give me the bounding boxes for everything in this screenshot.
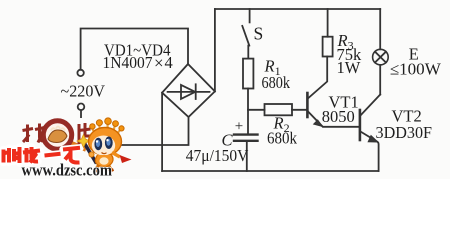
wire R3 top to rail bbox=[327, 9, 329, 37]
bridge rectifier VD1~VD4 diamond bbox=[162, 64, 215, 117]
capacitor C plates bbox=[234, 135, 258, 141]
watermark char zhao bbox=[23, 124, 45, 143]
wire top-left from terminal to bridge top bbox=[81, 29, 188, 70]
wire R1 bottom to capacitor bbox=[247, 89, 249, 135]
svg-text:≤100W: ≤100W bbox=[390, 60, 441, 79]
mascot crown bbox=[90, 118, 124, 133]
mascot bbox=[77, 118, 132, 172]
watermark magnifier ring logo bbox=[43, 121, 86, 150]
wire bridge right vertex to top rail bbox=[214, 9, 216, 91]
wire R2 to VT1 base bbox=[292, 109, 306, 111]
resistor R2 bbox=[265, 104, 293, 115]
mascot legs bbox=[96, 166, 112, 170]
VT2 emitter wire to bottom rail bbox=[360, 132, 378, 172]
terminal upper ~220V bbox=[77, 70, 83, 76]
watermark text weiku yixia red bbox=[4, 147, 81, 163]
mascot body bbox=[95, 155, 113, 167]
mascot star and sword bbox=[84, 143, 97, 164]
watermark white halo bbox=[0, 118, 117, 179]
svg-text:680k: 680k bbox=[267, 128, 298, 147]
svg-text:1N4007: 1N4007 bbox=[103, 53, 153, 72]
svg-text:S: S bbox=[254, 24, 264, 44]
svg-text:8050: 8050 bbox=[322, 107, 355, 126]
watermark char pian bbox=[79, 123, 91, 145]
svg-text:+: + bbox=[235, 119, 243, 135]
switch S bbox=[242, 9, 249, 59]
wire bottom rail bbox=[162, 170, 379, 172]
svg-text:www.dzsc.com: www.dzsc.com bbox=[22, 161, 113, 180]
svg-text:3DD30F: 3DD30F bbox=[376, 123, 433, 142]
wire top rail bbox=[215, 8, 380, 10]
wire capacitor to bottom rail bbox=[246, 142, 248, 171]
VT1 emitter wire to VT2 base bbox=[308, 111, 359, 127]
svg-text:×: × bbox=[154, 54, 164, 73]
resistor R1 bbox=[243, 59, 253, 89]
VT2 emitter arrow bbox=[368, 136, 378, 142]
transistor VT2 base bar bbox=[359, 110, 362, 140]
VT2 collector wire bbox=[360, 95, 380, 116]
svg-text:47μ/150V: 47μ/150V bbox=[186, 146, 249, 165]
mascot head bbox=[89, 128, 122, 156]
svg-text:1W: 1W bbox=[337, 58, 361, 77]
svg-text:4: 4 bbox=[165, 53, 173, 72]
wire lamp to VT2 collector bbox=[379, 65, 381, 95]
wire bridge left vertex to bottom rail bbox=[161, 93, 163, 171]
wire rail corner down to lamp bbox=[379, 9, 381, 49]
VT1 emitter arrow bbox=[314, 120, 323, 126]
terminal lower ~220V bbox=[78, 104, 85, 111]
svg-text:~220V: ~220V bbox=[61, 81, 106, 100]
wire junction to R2 bbox=[248, 109, 265, 111]
wire lower terminal to bridge bottom bbox=[81, 110, 189, 145]
svg-text:680k: 680k bbox=[262, 73, 291, 92]
transistor VT1 base bar bbox=[306, 93, 309, 117]
lamp E bbox=[373, 49, 389, 65]
diode symbol inside bridge bbox=[168, 84, 210, 99]
VT1 collector wire to R3 bbox=[308, 57, 327, 99]
mascot arm and red tip bbox=[112, 153, 120, 158]
resistor R3 bbox=[323, 37, 333, 57]
